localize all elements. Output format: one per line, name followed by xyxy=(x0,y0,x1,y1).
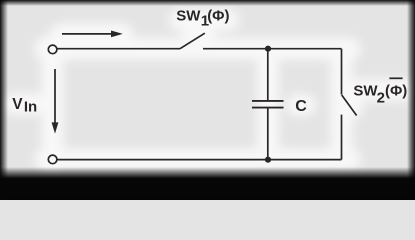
svg-text:C: C xyxy=(295,98,307,115)
junction dot top xyxy=(265,46,271,52)
wire: bottom xyxy=(57,159,341,161)
wire: capacitor bottom lead xyxy=(267,109,269,160)
Vin arrow shaft xyxy=(54,69,56,124)
terminal top-left xyxy=(48,45,57,54)
Vin arrow head xyxy=(52,122,59,133)
circuit strokes xyxy=(48,33,402,164)
overbar of phi in SW2 label xyxy=(389,77,402,79)
wire: SW1 right contact to top-right corner xyxy=(203,48,342,50)
current arrow shaft (top) xyxy=(62,33,112,35)
current arrow head xyxy=(111,31,123,38)
wire: top, terminal to SW1 left contact xyxy=(57,48,180,50)
svg-text:(Φ): (Φ) xyxy=(385,83,407,100)
svg-text:SW: SW xyxy=(353,83,378,100)
switch SW1 arm xyxy=(180,33,205,49)
junction dot bottom xyxy=(265,157,271,163)
capacitor C plates xyxy=(252,100,284,102)
wire: capacitor top lead xyxy=(267,49,269,100)
svg-text:In: In xyxy=(24,98,37,115)
svg-text:V: V xyxy=(12,96,23,113)
wire: right branch lower xyxy=(341,115,343,160)
edge vignette frame xyxy=(0,0,415,6)
terminal bottom-left xyxy=(48,155,57,164)
white halo glow under circuit artwork xyxy=(14,20,404,165)
switch SW2 arm xyxy=(342,95,357,116)
svg-text:2: 2 xyxy=(377,90,385,107)
wire: right branch upper xyxy=(341,49,343,95)
svg-text:SW: SW xyxy=(176,8,201,25)
svg-text:(Φ): (Φ) xyxy=(207,8,229,25)
